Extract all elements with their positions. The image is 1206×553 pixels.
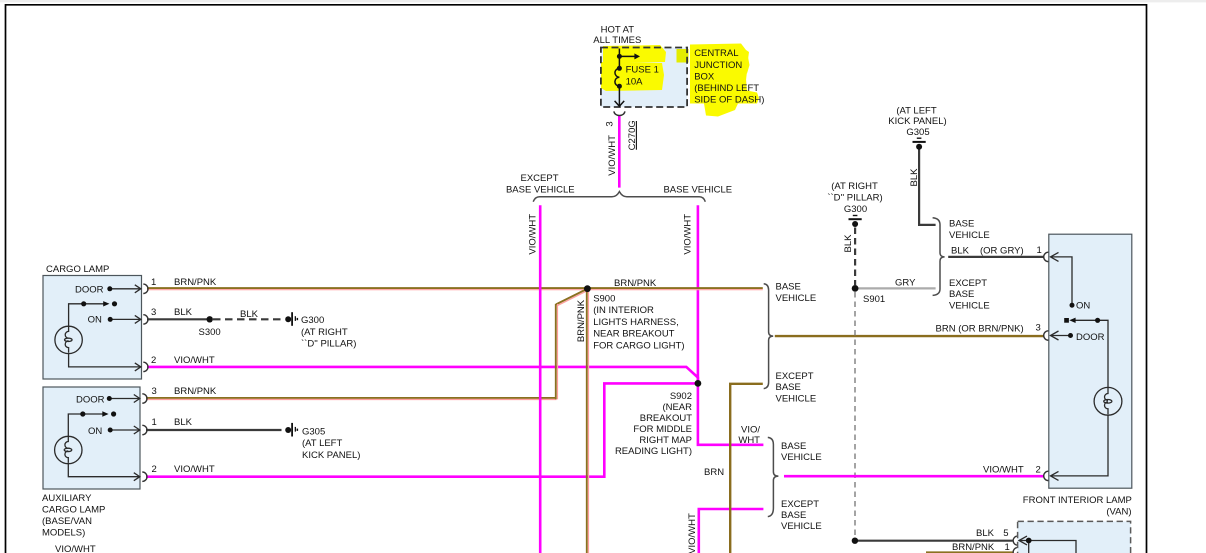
bulb wire top: [69, 304, 84, 326]
brace2 blk/gry merge: [933, 218, 945, 296]
svg-text:BLK: BLK: [951, 246, 970, 257]
svg-text:READING LIGHT): READING LIGHT): [615, 446, 692, 457]
aux lamp switch pole dot: [111, 411, 116, 416]
svg-text:BASE: BASE: [949, 289, 974, 300]
cargo lamp switch common dot: [81, 301, 86, 306]
svg-text:``D'' PILLAR): ``D'' PILLAR): [301, 338, 356, 349]
connector arc front lamp pin 3: [1044, 331, 1049, 340]
svg-text:1: 1: [151, 277, 156, 288]
svg-text:(NEAR: (NEAR: [662, 402, 692, 413]
bottom dashed box internals: [1019, 536, 1076, 553]
cargo lamp box: [43, 276, 142, 380]
svg-text:VIO/WHT: VIO/WHT: [527, 214, 538, 255]
svg-text:NEAR BREAKOUT: NEAR BREAKOUT: [593, 329, 674, 340]
svg-text:BLK: BLK: [174, 307, 193, 318]
svg-text:FUSE 1: FUSE 1: [626, 64, 659, 75]
node dot inside dashed box: [1026, 538, 1032, 544]
svg-text:BASE VEHICLE: BASE VEHICLE: [506, 184, 575, 195]
svg-text:10A: 10A: [626, 76, 644, 87]
cargo lamp ON contact dot: [108, 317, 113, 322]
connector cup below fuse box: [614, 111, 625, 115]
wire VIO/WHT right branch: [697, 205, 700, 383]
svg-text:DOOR: DOOR: [76, 394, 105, 405]
svg-text:1: 1: [1037, 245, 1042, 256]
svg-text:G305: G305: [302, 427, 325, 438]
svg-text:KICK PANEL): KICK PANEL): [302, 450, 360, 461]
ground symbol G300 top: [849, 215, 862, 227]
node: fuse top terminal dot: [617, 66, 622, 71]
aux lamp switch arm arrowhead: [102, 411, 108, 416]
node: fuse bottom terminal dot: [617, 84, 622, 89]
fuse 1 element: [615, 49, 635, 107]
wire BLK bottom splice to dashed box pin5: [855, 540, 1013, 542]
svg-text:BASE: BASE: [781, 441, 806, 452]
svg-text:BLK: BLK: [174, 417, 193, 428]
wire BLK brace2 output to front lamp pin1: [948, 256, 1043, 258]
splice S902: [695, 380, 702, 387]
splice S900: [584, 285, 591, 292]
svg-text:VIO/WHT: VIO/WHT: [174, 464, 215, 475]
cargo lamp DOOR contact dot: [107, 286, 112, 291]
wire VIO/WHT brace3 output to front lamp pin2: [784, 475, 1044, 478]
svg-text:KICK PANEL): KICK PANEL): [888, 116, 946, 127]
svg-text:DOOR: DOOR: [75, 285, 104, 296]
svg-text:(AT LEFT: (AT LEFT: [302, 438, 342, 449]
wire BLK cargo pin3: [147, 318, 210, 320]
door arrow line: [110, 288, 141, 290]
wire VIO/WHT S902 to brace3 top arm: [698, 383, 764, 444]
svg-text:(AT RIGHT: (AT RIGHT: [831, 181, 878, 192]
cargo lamp switch pole dot: [112, 301, 117, 306]
svg-text:RIGHT MAP: RIGHT MAP: [639, 435, 692, 446]
svg-text:BRN (OR BRN/PNK): BRN (OR BRN/PNK): [936, 324, 1024, 335]
svg-text:VIO/WHT: VIO/WHT: [174, 355, 215, 366]
connector arc pin 5 dashed box: [1013, 536, 1017, 545]
yellow highlighter marks: [603, 45, 666, 63]
svg-text:BASE: BASE: [776, 282, 801, 293]
svg-text:FOR CARGO LIGHT): FOR CARGO LIGHT): [593, 340, 684, 351]
svg-text:VIO/WHT: VIO/WHT: [687, 513, 698, 553]
front interior lamp box: [1049, 234, 1132, 488]
on arrow line: [110, 318, 141, 320]
wire BRN/PNK S900 diagonal to aux vertical: [556, 289, 587, 304]
svg-text:EXCEPT: EXCEPT: [520, 173, 558, 184]
svg-text:1: 1: [1005, 542, 1010, 553]
fuse output arrowhead: [615, 101, 625, 106]
svg-text:BRN/PNK: BRN/PNK: [174, 386, 217, 397]
svg-text:EXCEPT: EXCEPT: [776, 371, 814, 382]
splice S300: [207, 316, 213, 322]
bulb bottom to pin2: [1051, 415, 1109, 476]
svg-text:(VAN): (VAN): [1106, 507, 1131, 518]
svg-text:BASE VEHICLE: BASE VEHICLE: [663, 184, 732, 195]
svg-text:BLK: BLK: [843, 234, 854, 253]
svg-text:CARGO LAMP: CARGO LAMP: [42, 504, 105, 515]
connector arc cargo lamp pin 2: [143, 362, 148, 371]
svg-text:G305: G305: [906, 127, 929, 138]
fuse feed arrowhead: [634, 53, 640, 59]
svg-text:BRN/PNK: BRN/PNK: [614, 278, 657, 289]
wire VIO/WHT left branch: [539, 205, 542, 553]
svg-text:VIO/: VIO/: [741, 424, 760, 435]
svg-text:G300: G300: [301, 315, 324, 326]
front lamp switch pole dot: [1064, 318, 1069, 323]
connector arc front lamp pin 1: [1044, 252, 1049, 261]
bottom dashed box: [1018, 521, 1131, 553]
svg-text:3: 3: [1036, 323, 1041, 334]
svg-text:G300: G300: [844, 204, 867, 215]
svg-text:(IN INTERIOR: (IN INTERIOR: [593, 305, 654, 316]
svg-text:BRN: BRN: [704, 467, 724, 478]
wire VIO/WHT from fuse down: [618, 116, 621, 188]
svg-text:S901: S901: [863, 294, 885, 305]
svg-text:VEHICLE: VEHICLE: [949, 300, 990, 311]
front lamp DOOR contact dot: [1068, 333, 1073, 338]
svg-text:VIO/WHT: VIO/WHT: [983, 464, 1024, 475]
wire dashed gray S901 down to bottom splice: [854, 292, 856, 538]
svg-text:WHT: WHT: [738, 435, 760, 446]
wire BLK from G305 elbow to brace2: [919, 150, 936, 225]
svg-text:HOT AT: HOT AT: [601, 25, 635, 36]
svg-text:FRONT INTERIOR LAMP: FRONT INTERIOR LAMP: [1023, 495, 1132, 506]
svg-text:VEHICLE: VEHICLE: [776, 394, 817, 405]
front lamp switch arm arrowhead: [1069, 318, 1075, 323]
svg-text:BLK: BLK: [976, 528, 995, 539]
svg-text:GRY: GRY: [895, 277, 916, 288]
svg-text:VIO/WHT: VIO/WHT: [55, 544, 96, 553]
connector arc cargo lamp pin 3: [143, 315, 148, 324]
aux lamp ON contact dot: [108, 428, 113, 433]
wire BRN vertical + elbow to brace1 bottom arm: [730, 384, 763, 553]
svg-text:VEHICLE: VEHICLE: [781, 452, 822, 463]
svg-text:(AT RIGHT: (AT RIGHT: [301, 327, 348, 338]
svg-text:BASE: BASE: [949, 219, 974, 230]
svg-text:2: 2: [1036, 464, 1041, 475]
auxiliary cargo lamp box: [43, 387, 140, 489]
svg-text:VEHICLE: VEHICLE: [776, 293, 817, 304]
wire VIO/WHT S902 left branch to aux pin2: [146, 383, 698, 476]
wire GRY S901 to brace2: [858, 287, 936, 289]
svg-text:BRN/PNK: BRN/PNK: [576, 299, 587, 342]
svg-text:5: 5: [1003, 528, 1008, 539]
svg-text:CENTRAL: CENTRAL: [694, 48, 738, 59]
wire BLK dashed to G300: [213, 318, 282, 320]
svg-text:VIO/WHT: VIO/WHT: [607, 135, 618, 176]
wire BRN/PNK aux pin3: [146, 397, 557, 399]
svg-text:EXCEPT: EXCEPT: [949, 278, 987, 289]
wire BLK dashed from G300 ground to S901: [854, 228, 856, 286]
connector arc front lamp pin 2: [1044, 471, 1049, 480]
svg-text:BLK: BLK: [909, 168, 920, 187]
svg-text:BLK: BLK: [240, 309, 259, 320]
svg-text:3: 3: [151, 307, 156, 318]
svg-text:2: 2: [151, 355, 156, 366]
svg-text:AUXILIARY: AUXILIARY: [42, 493, 92, 504]
aux lamp DOOR contact dot: [107, 396, 112, 401]
ground symbol G305 top: [913, 138, 926, 150]
svg-text:(BASE/VAN: (BASE/VAN: [42, 516, 92, 527]
svg-text:BREAKOUT: BREAKOUT: [640, 413, 692, 424]
svg-text:S900: S900: [593, 294, 615, 305]
brace1 brown merge: [764, 284, 774, 389]
wire BRN/PNK bottom to dashed box pin1: [926, 551, 1013, 553]
connector arc aux lamp pin 3: [142, 394, 147, 403]
svg-text:C270G: C270G: [627, 120, 638, 150]
wire BLK aux pin1: [146, 429, 282, 431]
bulb: [55, 326, 82, 353]
svg-text:FOR MIDDLE: FOR MIDDLE: [633, 424, 692, 435]
arm elbow to bulb: [1098, 320, 1108, 387]
cargo lamp switch arm arrowhead: [103, 301, 109, 306]
wire VIO/WHT brace3 bottom arm: [699, 509, 764, 553]
wire BRN output to front lamp pin3: [775, 335, 1044, 337]
wire BRN/PNK cargo pin1 to S900 to brace: [147, 287, 763, 289]
connector arc aux lamp pin 1: [142, 425, 147, 434]
svg-text:DOOR: DOOR: [1076, 332, 1105, 343]
svg-text:ALL TIMES: ALL TIMES: [593, 35, 641, 46]
brace3 magenta merge: [768, 437, 779, 516]
svg-text:S902: S902: [670, 391, 692, 402]
pin3 line to DOOR dot: [1051, 335, 1071, 337]
front lamp ON contact dot: [1070, 303, 1075, 308]
connector C270G underline: [635, 121, 637, 150]
svg-text:LIGHTS HARNESS,: LIGHTS HARNESS,: [593, 317, 679, 328]
splitter brace (horizontal): [533, 192, 705, 202]
node: bus tap dot: [617, 54, 622, 59]
switch arm: [1074, 319, 1097, 321]
front lamp switch common dot: [1095, 318, 1100, 323]
svg-text:3: 3: [604, 121, 615, 126]
connector arc cargo lamp pin 1: [143, 284, 148, 293]
svg-text:3: 3: [152, 386, 157, 397]
svg-text:VIO/WHT: VIO/WHT: [682, 214, 693, 255]
svg-text:(BEHIND LEFT: (BEHIND LEFT: [694, 83, 759, 94]
bottom splice dot: [852, 538, 858, 544]
svg-text:1: 1: [152, 417, 157, 428]
svg-text:ON: ON: [88, 314, 102, 325]
switch arm: [84, 303, 106, 305]
wire VIO/WHT cargo pin2 to S902: [147, 367, 698, 384]
ground G300 right d-pillar (splice style): [285, 312, 298, 326]
svg-text:(AT LEFT: (AT LEFT: [896, 106, 936, 117]
bulb wire bottom: [69, 354, 141, 367]
splice S901: [852, 285, 859, 292]
svg-text:BASE: BASE: [781, 510, 806, 521]
ground G305 left kick panel (splice style): [285, 423, 298, 437]
svg-text:SIDE OF DASH): SIDE OF DASH): [694, 95, 764, 106]
central junction box (dashed, highlighted): [601, 44, 759, 117]
svg-text:EXCEPT: EXCEPT: [781, 499, 819, 510]
svg-text:VEHICLE: VEHICLE: [949, 230, 990, 241]
svg-text:2: 2: [152, 464, 157, 475]
connector arc aux lamp pin 2: [142, 472, 147, 481]
pin1 elbow to ON dot: [1051, 257, 1073, 303]
svg-text:VEHICLE: VEHICLE: [781, 521, 822, 532]
svg-text:JUNCTION: JUNCTION: [694, 60, 742, 71]
svg-text:S300: S300: [199, 327, 221, 338]
svg-text:BOX: BOX: [694, 71, 715, 82]
wire BRN/PNK S900 vertical: [586, 289, 588, 553]
svg-text:BRN/PNK: BRN/PNK: [174, 277, 217, 288]
svg-text:(OR GRY): (OR GRY): [980, 246, 1024, 257]
bulb: [1094, 387, 1122, 415]
connector arc pin 1 dashed box: [1013, 548, 1017, 553]
svg-text:ON: ON: [1076, 301, 1090, 312]
svg-text:BRN/PNK: BRN/PNK: [952, 542, 995, 553]
svg-text:ON: ON: [88, 426, 102, 437]
svg-text:CARGO LAMP: CARGO LAMP: [46, 264, 109, 275]
aux lamp switch common dot: [80, 411, 85, 416]
svg-text:MODELS): MODELS): [42, 527, 85, 538]
svg-text:``D'' PILLAR): ``D'' PILLAR): [827, 192, 882, 203]
svg-text:BASE: BASE: [776, 382, 801, 393]
